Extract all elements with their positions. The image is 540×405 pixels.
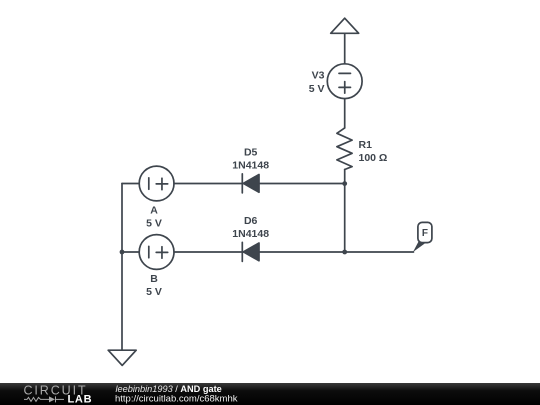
resistor R1 [337,128,352,170]
svg-text:1N4148: 1N4148 [232,228,269,240]
svg-text:5 V: 5 V [309,83,325,95]
svg-text:http://circuitlab.com/c68kmhk: http://circuitlab.com/c68kmhk [115,394,238,405]
voltage source V3 [327,64,362,99]
svg-text:leebinbin1993 / AND gate: leebinbin1993 / AND gate [116,384,222,394]
junction node at R1/D5 [342,181,347,186]
wire node to node vertical [344,184,346,252]
wire output row [345,251,414,253]
wire V3 to R1 [344,99,346,128]
wire D6 row [174,251,345,253]
svg-text:F: F [422,228,428,239]
svg-text:R1: R1 [359,139,373,151]
wire left rail [121,184,123,351]
svg-text:D5: D5 [244,147,258,159]
voltage source A [139,166,174,201]
wire D5 row [174,183,345,185]
svg-text:LAB: LAB [68,394,93,405]
wire B left [122,251,139,253]
flag F [413,222,432,252]
svg-text:A: A [150,205,158,217]
svg-text:B: B [150,273,158,285]
diode D5 [242,174,259,193]
junction node at D6/output [342,250,347,255]
logo resistor-diode glyph [24,396,64,402]
svg-text:1N4148: 1N4148 [232,159,269,171]
ground [108,350,136,365]
diode D6 [242,242,259,261]
svg-text:100 Ω: 100 Ω [359,152,388,164]
svg-text:5 V: 5 V [146,286,162,298]
power VCC symbol [331,18,359,33]
wire R1 to node [344,170,346,184]
junction node on left rail [120,250,125,255]
wire A left [122,183,139,185]
svg-text:V3: V3 [312,70,325,82]
wire VCC to V3 [344,33,346,64]
footer bar [0,383,540,405]
svg-text:5 V: 5 V [146,217,162,229]
voltage source B [139,235,174,270]
svg-text:D6: D6 [244,215,258,227]
